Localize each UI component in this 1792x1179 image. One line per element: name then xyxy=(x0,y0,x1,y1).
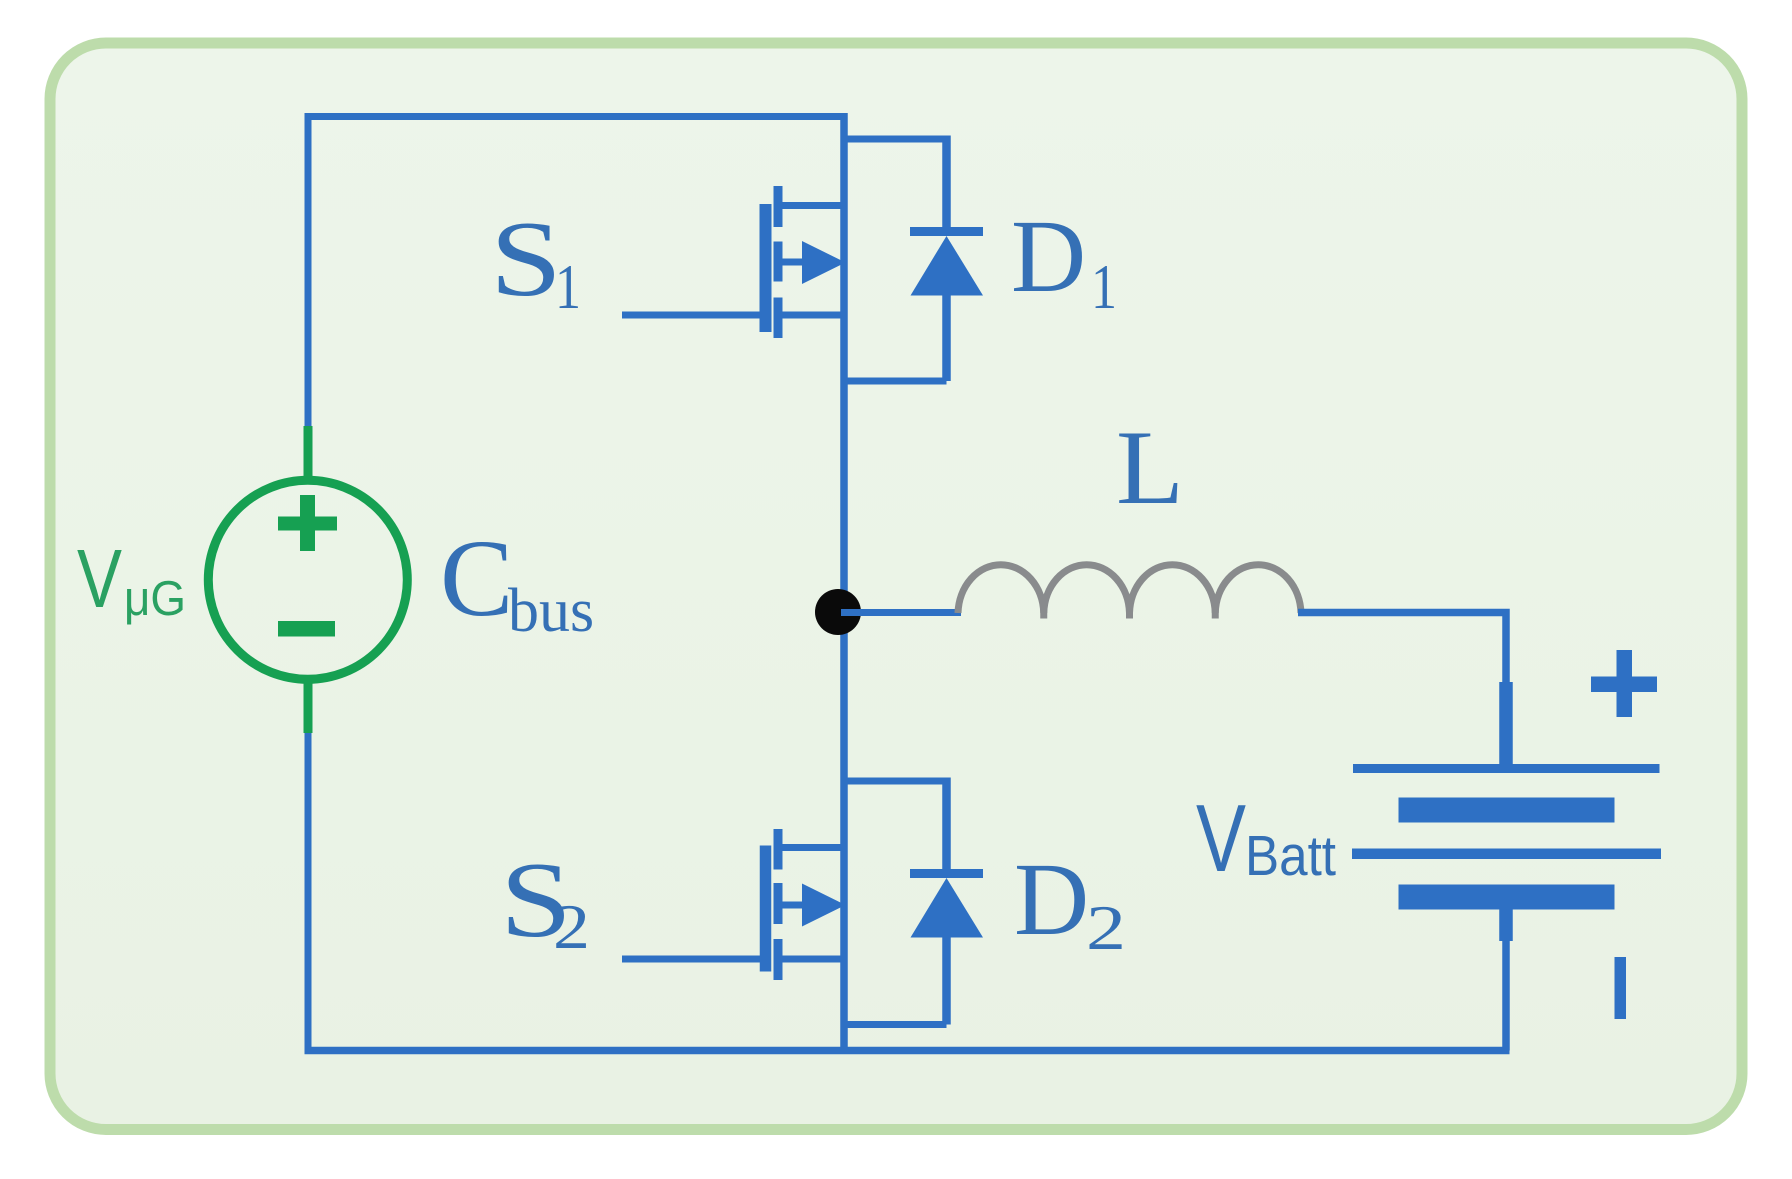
svg-text:D: D xyxy=(1011,199,1086,314)
diode D2 xyxy=(844,778,983,1025)
battery negative lead xyxy=(1499,908,1513,941)
battery plus marker xyxy=(1591,650,1657,717)
wire top-left loop xyxy=(308,117,844,430)
inductor L xyxy=(958,565,1301,619)
svg-text:1: 1 xyxy=(1091,252,1117,322)
wire bottom xyxy=(305,1047,1510,1055)
wire node to inductor xyxy=(841,609,961,616)
transistor S2 (MOSFET) xyxy=(622,829,848,980)
svg-text:C: C xyxy=(440,517,513,639)
svg-text:1: 1 xyxy=(555,252,581,322)
node (junction dot) xyxy=(815,589,861,635)
svg-text:bus: bus xyxy=(508,577,594,645)
wire main vertical (bus leg) xyxy=(840,113,848,1051)
svg-text:Batt: Batt xyxy=(1245,824,1336,888)
transistor S1 (MOSFET) xyxy=(622,186,848,338)
svg-text:2: 2 xyxy=(1086,893,1126,963)
wire inductor to battery xyxy=(1298,613,1506,691)
wire left lower xyxy=(305,730,312,1051)
voltage source V_uG xyxy=(208,426,407,733)
svg-text:2: 2 xyxy=(553,892,590,962)
svg-text:V: V xyxy=(1196,785,1246,892)
diode D1 xyxy=(844,136,983,382)
svg-text:S: S xyxy=(490,200,562,319)
svg-text:μG: μG xyxy=(124,572,186,626)
battery minus marker xyxy=(1615,957,1627,1019)
svg-text:D: D xyxy=(1014,842,1089,957)
battery V_Batt xyxy=(1352,764,1661,910)
svg-text:L: L xyxy=(1116,409,1184,526)
svg-text:V: V xyxy=(77,532,122,625)
